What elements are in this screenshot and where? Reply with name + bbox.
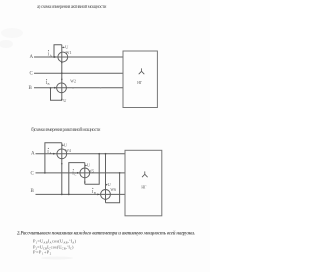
formula P1 (33, 239, 77, 245)
label НГ (circuit a load) (137, 81, 143, 85)
wire phase A (circuit b) (36, 153, 126, 155)
node A (phase A label, circuit b) (31, 152, 35, 157)
label W4 (65, 149, 71, 153)
node B (phase B label, circuit b) (31, 189, 35, 194)
wattmeter W5 (80, 168, 90, 178)
svg-text:А: А (30, 55, 34, 60)
junction dot W6 lead on phase C (119, 172, 121, 174)
wire voltage vertical through W1 and W2 (61, 45, 63, 101)
arrow U of W5 (85, 165, 87, 167)
svg-text:U: U (87, 163, 91, 168)
wire W4 vertical through circle down to phase B (61, 143, 63, 195)
paragraph 2 heading (16, 231, 195, 237)
svg-text:А: А (31, 152, 35, 157)
svg-text:W5: W5 (88, 169, 94, 173)
svg-text:В: В (31, 189, 35, 194)
node A (phase A label, circuit a) (30, 55, 34, 60)
arrowhead on W4 vertical below circle (61, 163, 63, 165)
svg-text:б)схема измерения реактивной м: б)схема измерения реактивной мощности (31, 128, 101, 133)
wire W5 bottom lead to phase A (85, 154, 99, 184)
svg-text:С: С (74, 173, 76, 177)
label НГ (circuit b load) (141, 185, 147, 189)
svg-text:В: В (48, 82, 50, 86)
junction dot W5 lead on phase A (98, 153, 100, 155)
arrowhead on W6 vertical below circle (105, 199, 107, 201)
label W6 (110, 188, 116, 192)
junction dot W4 vertical on phase B (61, 194, 63, 196)
wattmeter W1 (58, 52, 68, 62)
arrowhead on vertical above W2 (61, 78, 63, 80)
svg-text:НГ: НГ (141, 185, 147, 189)
svg-text:W1: W1 (66, 50, 72, 55)
wattmeter W2 (57, 83, 67, 93)
arrowhead at W2 loop corner (61, 99, 63, 101)
svg-text:U: U (65, 45, 69, 50)
label W2 (70, 79, 76, 83)
load box (circuit b) (125, 150, 162, 216)
label U of W2 (63, 98, 67, 103)
label I_A (circuit b) (47, 148, 52, 155)
wire W6 voltage vertical from phase A through circle (105, 154, 107, 203)
label W1 (66, 50, 72, 55)
label I_A (circuit a) (48, 50, 53, 57)
wire phase A (circuit a) (34, 56, 123, 58)
label U of W5 (87, 163, 91, 168)
title a) схема измерения активной мощности (37, 5, 107, 10)
svg-text:а) схема измерения активной мо: а) схема измерения активной мощности (37, 5, 107, 10)
current arrow on phase C before W5 (77, 172, 79, 174)
wattmeter W4 (57, 149, 67, 159)
svg-text:U: U (63, 98, 67, 103)
current arrow on phase A before W1 (54, 56, 56, 58)
node B (phase B label, circuit a) (29, 86, 33, 91)
wire phase C (circuit b) (36, 172, 126, 174)
current arrow on phase A before W4 (53, 153, 55, 155)
label I_C (circuit b) (72, 169, 76, 176)
formula P2 (33, 244, 74, 250)
svg-text:В: В (94, 191, 96, 195)
svg-text:W2: W2 (70, 79, 76, 83)
svg-text:НГ: НГ (137, 81, 143, 85)
wire W5 voltage loop (top to phase B) (69, 163, 85, 195)
label U of W4 (64, 142, 68, 147)
wire W1 voltage loop top (54, 45, 62, 57)
junction dot W1 loop on phase A (53, 56, 55, 58)
junction dot W2 loop on phase B (50, 87, 52, 89)
formula P total (33, 250, 52, 256)
current arrow on phase B before W6 (97, 193, 99, 195)
junction dot W6 vertical on phase A (105, 153, 107, 155)
wattmeter W6 (101, 190, 111, 200)
faint scan smudge bottom (41, 257, 73, 260)
arrow U of W6 (106, 184, 108, 186)
svg-text:С: С (31, 171, 35, 176)
wire W5 vertical through circle to bottom lead (84, 163, 86, 185)
svg-text:P=P1+P2: P=P1+P2 (33, 250, 52, 256)
svg-text:U: U (64, 142, 68, 147)
label I_B (circuit a) (46, 79, 50, 86)
label I_B (circuit b) (92, 188, 96, 195)
wire phase B (circuit a) (34, 87, 123, 89)
label U of W6 (108, 182, 112, 187)
wire W2 voltage loop bottom (51, 88, 62, 100)
title b) схема измерения реактивной мощности (31, 128, 101, 133)
arrowhead on vertical below W1 (61, 62, 63, 64)
faint scan smudge left margin (0, 28, 23, 48)
svg-text:2.Рассчитываем показания каждо: 2.Рассчитываем показания каждого ваттмет… (16, 231, 195, 237)
node C (phase C label, circuit a) (30, 71, 34, 76)
junction dot W5 loop on phase B (68, 194, 70, 196)
wire W4 voltage vertical (top loop to phase C) (45, 143, 62, 173)
svg-text:В: В (29, 86, 33, 91)
node C (phase C label, circuit b) (31, 171, 35, 176)
junction dot vertical on phase C (61, 72, 63, 74)
arrow U of W4 (62, 144, 64, 146)
svg-text:С: С (30, 71, 34, 76)
svg-text:А: А (49, 151, 52, 155)
current arrow on phase B before W2 (54, 87, 56, 89)
junction dot right of W2 on phase B (72, 87, 74, 89)
svg-text:U: U (108, 182, 112, 187)
wire W6 bottom lead to phase C (106, 173, 120, 203)
label U of W1 (65, 45, 69, 50)
wire phase C (circuit a) (34, 72, 123, 74)
wire phase B (circuit b) (36, 193, 126, 195)
junction dot W4 loop on phase C (44, 172, 46, 174)
arrowhead on W5 vertical below circle (84, 182, 86, 184)
svg-text:W4: W4 (65, 149, 71, 153)
wye symbol (circuit b load) (142, 171, 148, 177)
stray dot on phase B (100, 87, 101, 88)
arrow U of W1 (62, 47, 65, 49)
svg-text:W6: W6 (110, 188, 116, 192)
load box (circuit a) (123, 51, 157, 108)
label W5 (88, 169, 94, 173)
wye symbol (circuit a load) (139, 68, 145, 74)
